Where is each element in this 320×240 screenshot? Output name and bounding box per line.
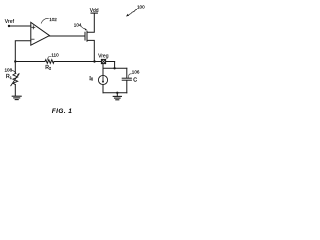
svg-text:R2: R2 [45, 65, 51, 71]
label 104 [74, 23, 88, 31]
svg-text:R1: R1 [6, 74, 12, 80]
wire feedback: - input left and down [15, 41, 30, 62]
svg-text:104: 104 [74, 23, 82, 28]
wire R1 to ground [14, 85, 16, 96]
svg-text:102: 102 [49, 17, 57, 22]
label 108 [5, 68, 17, 74]
svg-text:FIG. 1: FIG. 1 [52, 108, 72, 115]
svg-text:I0: I0 [89, 76, 93, 82]
label 102 [41, 17, 57, 23]
resistor R2 (110) [45, 60, 54, 64]
svg-text:Vref: Vref [5, 19, 15, 25]
op-amp U1 (102) [31, 22, 50, 45]
label 110 [48, 53, 59, 61]
capacitor C (106) [122, 68, 131, 93]
node Vref [5, 19, 15, 27]
wire pad to current source and cap top [102, 64, 104, 69]
svg-text:C: C [133, 78, 137, 84]
junction drain/feedback rail [93, 60, 95, 62]
ground left [12, 96, 21, 99]
ground right [113, 93, 121, 100]
svg-text:106: 106 [132, 70, 140, 75]
svg-text:Vreg: Vreg [98, 54, 109, 60]
wire op-amp output to gate [50, 35, 86, 37]
junction feedback/R1 [14, 60, 16, 62]
node X (pad symbol) [101, 59, 105, 63]
power Vdd [90, 8, 99, 14]
wire right branch down [114, 62, 116, 69]
wire bottom rail [103, 92, 127, 94]
resistor R1 variable (108) [11, 62, 20, 86]
svg-text:110: 110 [51, 53, 59, 58]
current source I0 [89, 75, 107, 84]
wire current source to bottom rail [102, 85, 104, 93]
wire Vref to op-amp + input [9, 25, 31, 27]
wire main rail y=61.5 [15, 61, 45, 63]
transistor Q1 (104) [85, 14, 94, 62]
svg-text:100: 100 [137, 5, 145, 10]
junction right branch [113, 67, 115, 69]
svg-text:108: 108 [5, 68, 13, 73]
label 106 [129, 70, 140, 78]
junction ground stem [116, 92, 118, 94]
label 100 figure arrow [126, 5, 145, 17]
